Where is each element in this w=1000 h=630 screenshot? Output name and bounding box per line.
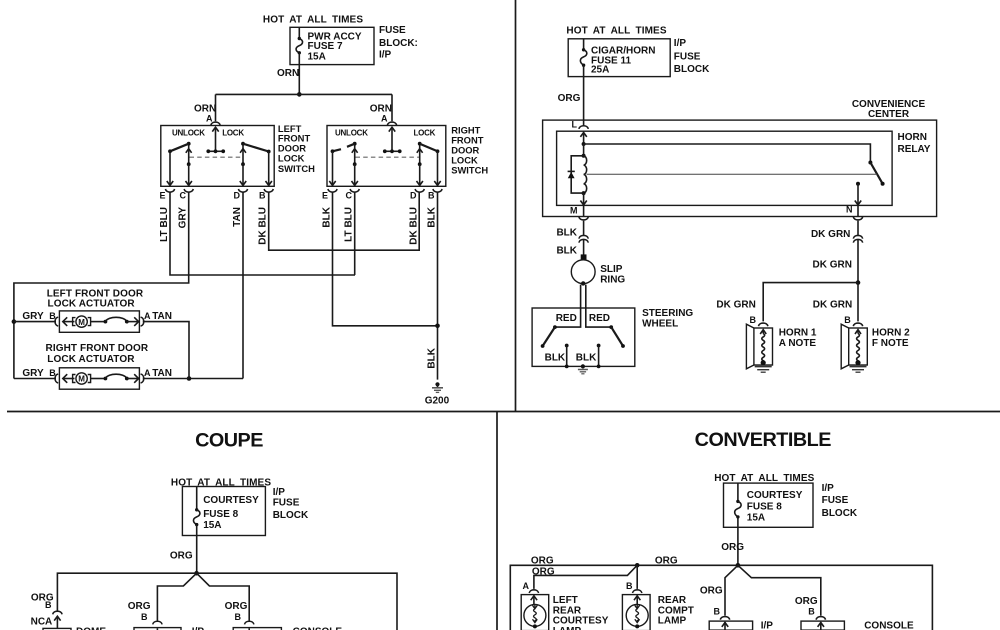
svg-text:DK GRN: DK GRN bbox=[811, 229, 850, 240]
wire ORG branch to console (coupe) bbox=[197, 573, 250, 621]
connector B console (conv, cap) bbox=[816, 617, 825, 620]
svg-text:ORN: ORN bbox=[277, 68, 299, 79]
relay splice at coil top bbox=[582, 142, 586, 146]
wire BLK M to connector bbox=[583, 221, 585, 236]
svg-text:A: A bbox=[523, 581, 530, 591]
right switch terminal E wire+arrow bbox=[329, 151, 335, 185]
svg-text:E: E bbox=[322, 191, 328, 201]
svg-text:F NOTE: F NOTE bbox=[872, 338, 909, 349]
left switch UNLOCK blade bbox=[168, 142, 191, 153]
connector B console (coupe) bbox=[245, 621, 254, 624]
connector N (cup) bbox=[853, 217, 862, 220]
svg-text:GRY: GRY bbox=[178, 207, 189, 229]
svg-text:BLK: BLK bbox=[545, 353, 566, 364]
right switch terminal B wire+arrow bbox=[434, 151, 440, 185]
svg-text:ORG: ORG bbox=[655, 555, 678, 566]
svg-text:M: M bbox=[570, 206, 578, 216]
svg-text:A: A bbox=[144, 311, 151, 321]
svg-text:DK BLU: DK BLU bbox=[258, 207, 269, 245]
svg-text:COURTESY: COURTESY bbox=[203, 495, 259, 506]
wire N through box edges bbox=[857, 205, 859, 216]
svg-text:DK GRN: DK GRN bbox=[813, 260, 852, 271]
svg-text:CONSOLE: CONSOLE bbox=[293, 627, 343, 630]
left switch terminal B wire+arrow bbox=[266, 152, 272, 186]
fuse COURTESY FUSE 8 15A (conv) bbox=[735, 483, 741, 527]
svg-text:A: A bbox=[381, 113, 388, 123]
connector B rear compt lamp (cap) bbox=[633, 590, 642, 593]
svg-text:B: B bbox=[235, 612, 242, 622]
svg-text:B: B bbox=[49, 311, 56, 321]
left switch mechanical link dashed bbox=[190, 156, 244, 158]
wire TAN across actuator A junction bbox=[189, 378, 243, 380]
connector B right (cup) bbox=[433, 189, 442, 192]
fuse COURTESY FUSE 8 15A (coupe) bbox=[193, 487, 199, 536]
connector A left switch bbox=[211, 122, 220, 125]
left switch D pole contact bbox=[240, 145, 246, 166]
svg-text:B: B bbox=[626, 581, 633, 591]
svg-text:TAN: TAN bbox=[152, 311, 172, 322]
svg-text:B: B bbox=[750, 315, 757, 325]
wire BLK right E down to splice bbox=[333, 192, 438, 325]
svg-text:FUSE: FUSE bbox=[822, 495, 849, 506]
svg-text:UNLOCK: UNLOCK bbox=[172, 128, 205, 137]
left front door lock actuator box bbox=[59, 311, 139, 332]
left switch terminal D wire+arrow bbox=[240, 164, 246, 185]
convenience center box bbox=[543, 120, 937, 216]
svg-text:NCA: NCA bbox=[31, 616, 53, 627]
connector A left actuator bbox=[141, 317, 144, 326]
console box (conv, clipped) bbox=[801, 621, 844, 630]
svg-text:RED: RED bbox=[589, 313, 610, 324]
wire BLK right B down to ground bbox=[437, 192, 439, 379]
svg-text:15A: 15A bbox=[308, 51, 326, 62]
right switch UNLOCK blade (open gap) bbox=[331, 142, 357, 153]
right switch mechanical link dashed bbox=[356, 156, 420, 158]
svg-text:B: B bbox=[808, 607, 815, 617]
wire ORG branch to left rear courtesy lamp bbox=[534, 565, 637, 589]
svg-text:B: B bbox=[141, 612, 148, 622]
svg-text:FUSE 8: FUSE 8 bbox=[747, 501, 782, 512]
fuse PWR ACCY FUSE 7 15A bbox=[296, 27, 302, 64]
wire DK GRN to splice bbox=[857, 240, 859, 283]
svg-text:B: B bbox=[714, 607, 721, 617]
svg-text:DK GRN: DK GRN bbox=[716, 300, 755, 311]
svg-text:I/P: I/P bbox=[379, 50, 392, 61]
svg-text:ORG: ORG bbox=[170, 551, 193, 562]
connector A right actuator bbox=[141, 374, 144, 383]
connector C right (cup) bbox=[350, 189, 359, 192]
svg-text:ORG: ORG bbox=[532, 566, 555, 577]
svg-text:ORG: ORG bbox=[721, 542, 744, 553]
horn switch left contact bbox=[565, 344, 569, 369]
svg-text:RING: RING bbox=[600, 275, 625, 286]
svg-text:ORG: ORG bbox=[531, 555, 554, 566]
wire ORN fuse to splice bbox=[298, 65, 300, 95]
connector D left (cup) bbox=[238, 189, 247, 192]
svg-text:LOCK ACTUATOR: LOCK ACTUATOR bbox=[47, 354, 135, 365]
right front door lock actuator box bbox=[59, 368, 139, 389]
svg-text:LOCK: LOCK bbox=[414, 128, 436, 137]
left switch terminal C wire+arrow bbox=[186, 164, 192, 185]
wire ORG fuse to splice (coupe) bbox=[196, 536, 198, 574]
connector B I/P (conv, cap) bbox=[720, 617, 729, 620]
connector B horn 1 (cap) bbox=[759, 323, 768, 326]
wire LT BLU left E down and across bbox=[170, 192, 355, 275]
svg-text:A: A bbox=[144, 368, 151, 378]
steering wheel box bbox=[532, 308, 635, 366]
wire ORG branch to I/P lamp (coupe) bbox=[157, 573, 196, 621]
connector B horn 2 (cap) bbox=[853, 323, 862, 326]
svg-text:L: L bbox=[572, 119, 578, 129]
dome lamp box (coupe, clipped) bbox=[43, 628, 71, 630]
left switch common bar bbox=[206, 149, 225, 153]
svg-text:TAN: TAN bbox=[152, 368, 172, 379]
svg-text:LOCK ACTUATOR: LOCK ACTUATOR bbox=[48, 298, 136, 309]
svg-text:ORG: ORG bbox=[558, 93, 581, 104]
ground G200 bbox=[432, 382, 443, 392]
connector A left rear lamp (cap) bbox=[529, 590, 538, 593]
right switch LOCK blade bbox=[418, 142, 440, 153]
splice BLK bbox=[435, 324, 440, 329]
splice ORG below fuse (conv) bbox=[736, 563, 741, 568]
svg-text:I/P: I/P bbox=[822, 483, 835, 494]
svg-text:FUSE 7: FUSE 7 bbox=[308, 41, 343, 52]
svg-text:15A: 15A bbox=[203, 520, 221, 531]
svg-text:HORN 2: HORN 2 bbox=[872, 328, 910, 339]
wire GRY stub to right actuator B bbox=[14, 378, 56, 380]
connector E left (cup) bbox=[165, 189, 174, 192]
svg-text:CONVERTIBLE: CONVERTIBLE bbox=[695, 429, 832, 451]
splice GRY at left actuator B bbox=[12, 319, 17, 324]
relay M terminal arrow bbox=[580, 193, 586, 205]
left switch terminal E wire+arrow bbox=[167, 151, 173, 185]
fuse block I/P box (coupe) bbox=[182, 487, 265, 536]
wire DK GRN to horn 2 bbox=[857, 283, 859, 322]
splice DK GRN bbox=[856, 280, 861, 285]
wire ORG right run (coupe) bbox=[197, 573, 397, 630]
connector B left actuator bbox=[55, 317, 58, 326]
svg-text:LAMP: LAMP bbox=[553, 626, 582, 630]
wire ORN drop to right switch A bbox=[391, 94, 393, 121]
wire ORN drop to left switch A bbox=[215, 94, 217, 121]
svg-text:HORN: HORN bbox=[898, 132, 927, 143]
fuse CIGAR/HORN FUSE 11 25A bbox=[580, 39, 586, 77]
connector B left (cup) bbox=[264, 189, 273, 192]
divider vertical bottom bbox=[496, 412, 498, 630]
horn 1 (A note) bbox=[746, 324, 772, 372]
wire DK BLU left B across to right D bbox=[269, 192, 420, 250]
svg-text:D: D bbox=[410, 191, 417, 201]
fuse block I/P box bbox=[290, 27, 374, 64]
svg-text:BLK: BLK bbox=[556, 227, 577, 238]
wire ORG fuse to convenience center bbox=[583, 77, 585, 126]
svg-text:G200: G200 bbox=[425, 396, 450, 407]
svg-text:RIGHT FRONT DOOR: RIGHT FRONT DOOR bbox=[46, 343, 149, 354]
wire DK GRN N to connector bbox=[857, 221, 859, 236]
wire LT BLU right C down bbox=[354, 192, 356, 275]
svg-text:ORG: ORG bbox=[225, 601, 248, 612]
connector B I/P lamp (coupe) bbox=[153, 621, 162, 624]
wire DK GRN branch to horn 1 bbox=[763, 283, 858, 322]
wire ORG fuse to splice (conv) bbox=[737, 527, 739, 565]
svg-text:I/P: I/P bbox=[674, 38, 687, 49]
svg-text:BLOCK: BLOCK bbox=[273, 510, 309, 521]
fuse block I/P box (horn) bbox=[568, 39, 670, 77]
svg-text:TAN: TAN bbox=[232, 207, 243, 227]
svg-text:CONSOLE: CONSOLE bbox=[864, 620, 914, 630]
I/P lamp box (coupe, clipped) bbox=[134, 628, 181, 630]
left switch common feed arrow bbox=[212, 127, 218, 151]
svg-text:D: D bbox=[234, 191, 241, 201]
right actuator motor bbox=[63, 373, 139, 384]
splice TAN at right actuator A bbox=[187, 376, 192, 381]
wire TAN left D down bbox=[242, 192, 244, 378]
svg-text:BLK: BLK bbox=[576, 353, 597, 364]
svg-text:RELAY: RELAY bbox=[898, 144, 931, 155]
wire ORN branch horizontal bbox=[216, 93, 393, 95]
svg-text:DK BLU: DK BLU bbox=[409, 207, 420, 245]
svg-text:BLOCK:: BLOCK: bbox=[379, 38, 418, 49]
svg-text:SLIP: SLIP bbox=[600, 264, 623, 275]
fuse block I/P box (conv) bbox=[724, 483, 814, 527]
svg-text:I/P: I/P bbox=[192, 627, 205, 630]
relay N contact bbox=[855, 182, 861, 205]
wire ORG branch to I/P lamps (conv) bbox=[725, 565, 738, 615]
inline connector BLK bbox=[579, 235, 588, 242]
svg-text:COURTESY: COURTESY bbox=[553, 616, 609, 627]
twin wires slip ring to horn switches bbox=[555, 285, 611, 328]
relay wire to fixed contact bbox=[584, 144, 871, 163]
svg-text:SWITCH: SWITCH bbox=[278, 163, 315, 174]
svg-text:B: B bbox=[49, 368, 56, 378]
svg-text:DOME: DOME bbox=[76, 627, 106, 630]
svg-text:I/P: I/P bbox=[273, 487, 286, 498]
connector A right switch bbox=[387, 122, 396, 125]
svg-text:BLK: BLK bbox=[427, 347, 438, 368]
svg-text:GRY: GRY bbox=[22, 311, 44, 322]
relay blade bbox=[870, 163, 884, 186]
relay feed arrow from L bbox=[580, 132, 586, 144]
svg-text:WHEEL: WHEEL bbox=[642, 318, 678, 329]
svg-text:25A: 25A bbox=[591, 65, 609, 76]
svg-text:FUSE: FUSE bbox=[674, 52, 701, 63]
wire ORG left run (coupe) bbox=[57, 573, 196, 611]
wire TAN left actuator A riser bbox=[143, 322, 189, 379]
right switch terminal D wire+arrow bbox=[417, 164, 423, 185]
connector M (cup) bbox=[579, 217, 588, 220]
svg-text:DK GRN: DK GRN bbox=[813, 300, 852, 311]
connector B right actuator bbox=[55, 374, 58, 383]
relay armature line bbox=[587, 173, 878, 175]
wire GRY left C down to actuators bbox=[14, 192, 189, 378]
svg-text:A NOTE: A NOTE bbox=[779, 338, 817, 349]
horn switch right blade bbox=[609, 325, 625, 348]
connector D right (cup) bbox=[415, 189, 424, 192]
rear compt lamp (clipped) bbox=[622, 595, 650, 630]
svg-text:STEERING: STEERING bbox=[642, 308, 693, 319]
wire GRY stub to left actuator B bbox=[14, 321, 56, 323]
svg-text:BLK: BLK bbox=[556, 246, 577, 257]
inline connector DK GRN bbox=[853, 235, 862, 242]
divider horizontal bbox=[7, 411, 1000, 413]
left switch C pole contact bbox=[186, 145, 192, 166]
svg-text:FUSE: FUSE bbox=[273, 498, 300, 509]
relay fixed contact dot bbox=[868, 161, 872, 165]
svg-text:COURTESY: COURTESY bbox=[747, 490, 803, 501]
svg-text:RED: RED bbox=[556, 313, 577, 324]
wire M through box edges bbox=[583, 205, 585, 216]
connector NCA (dome) bbox=[53, 611, 62, 628]
splice junction ORN bbox=[297, 92, 302, 97]
left rear courtesy lamp (clipped) bbox=[521, 595, 549, 630]
splice ORG (coupe) bbox=[194, 571, 199, 576]
svg-text:FUSE 8: FUSE 8 bbox=[203, 509, 238, 520]
svg-text:HORN 1: HORN 1 bbox=[779, 328, 817, 339]
wire ORG branch to console (conv) bbox=[738, 565, 821, 615]
wire ORG main run (conv) bbox=[510, 565, 932, 630]
connector E right (cup) bbox=[328, 189, 337, 192]
svg-text:B: B bbox=[45, 600, 52, 610]
left front door lock switch box bbox=[161, 126, 274, 187]
svg-text:SWITCH: SWITCH bbox=[451, 165, 488, 176]
right switch terminal C wire+arrow bbox=[352, 164, 358, 185]
svg-text:BLK: BLK bbox=[427, 206, 438, 227]
svg-text:E: E bbox=[160, 191, 166, 201]
svg-text:LAMP: LAMP bbox=[658, 616, 687, 627]
svg-text:I/P: I/P bbox=[761, 620, 774, 630]
svg-text:LOCK: LOCK bbox=[222, 128, 244, 137]
svg-text:HOT AT ALL TIMES: HOT AT ALL TIMES bbox=[263, 15, 363, 26]
right switch common bar bbox=[383, 149, 402, 153]
connector C left (cup) bbox=[184, 189, 193, 192]
console box (coupe, clipped) bbox=[233, 628, 281, 630]
svg-text:BLK: BLK bbox=[322, 206, 333, 227]
svg-text:GRY: GRY bbox=[22, 368, 44, 379]
svg-text:15A: 15A bbox=[747, 513, 765, 524]
svg-text:HOT AT ALL TIMES: HOT AT ALL TIMES bbox=[566, 25, 666, 36]
svg-text:BLOCK: BLOCK bbox=[822, 508, 858, 519]
svg-text:ORG: ORG bbox=[795, 596, 818, 607]
right switch D pole contact bbox=[417, 145, 423, 166]
right switch common feed arrow bbox=[389, 127, 395, 151]
svg-text:UNLOCK: UNLOCK bbox=[335, 128, 368, 137]
horn 2 (F note) bbox=[841, 324, 867, 372]
left switch LOCK blade bbox=[241, 142, 271, 154]
svg-text:LT BLU: LT BLU bbox=[344, 207, 355, 242]
left actuator motor bbox=[63, 316, 139, 327]
right front door lock switch box bbox=[327, 126, 446, 187]
relay clamp diode bbox=[568, 156, 584, 193]
svg-text:ORG: ORG bbox=[700, 586, 723, 597]
svg-text:FUSE: FUSE bbox=[379, 25, 406, 36]
svg-text:B: B bbox=[259, 191, 266, 201]
connector L (cap) bbox=[579, 126, 588, 129]
relay coil bbox=[582, 144, 587, 195]
right switch C pole contact bbox=[352, 145, 358, 166]
wire ORG branch to rear compt lamp bbox=[636, 565, 638, 589]
horn switch left blade bbox=[541, 325, 557, 348]
svg-text:B: B bbox=[428, 191, 435, 201]
svg-text:M: M bbox=[78, 375, 85, 384]
horn relay box bbox=[557, 131, 893, 205]
svg-text:B: B bbox=[844, 315, 851, 325]
wire TAN right actuator A stub bbox=[143, 378, 189, 380]
I/P lamp box (conv, clipped) bbox=[709, 621, 752, 630]
slip ring bbox=[571, 254, 595, 285]
svg-text:BLOCK: BLOCK bbox=[674, 64, 710, 75]
svg-text:N: N bbox=[846, 204, 853, 214]
splice ORG at rear lamps (conv) bbox=[635, 563, 640, 568]
ground (steering wheel) bbox=[578, 364, 588, 374]
horn switch right contact bbox=[597, 344, 601, 369]
svg-text:M: M bbox=[78, 318, 85, 327]
wire BLK to slip ring bbox=[583, 240, 585, 255]
svg-text:CENTER: CENTER bbox=[868, 109, 910, 120]
divider vertical top bbox=[515, 0, 517, 412]
svg-text:COUPE: COUPE bbox=[195, 429, 263, 451]
svg-text:ORG: ORG bbox=[128, 601, 151, 612]
svg-text:A: A bbox=[206, 113, 213, 123]
svg-text:REAR: REAR bbox=[658, 595, 687, 606]
svg-text:LEFT: LEFT bbox=[553, 595, 578, 606]
svg-text:HOT AT ALL TIMES: HOT AT ALL TIMES bbox=[714, 473, 814, 484]
svg-text:LT BLU: LT BLU bbox=[159, 207, 170, 242]
